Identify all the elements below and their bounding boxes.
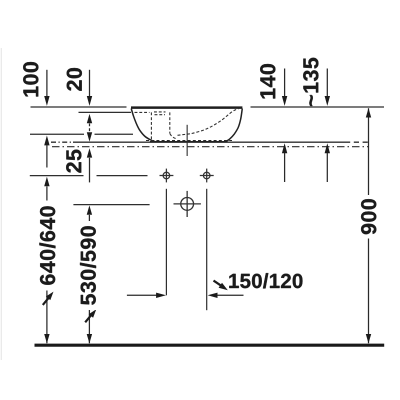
dimension 100 line	[44, 70, 49, 168]
drop line from circle 2	[206, 189, 208, 310]
rim level line left	[31, 106, 127, 108]
inner wall dashed vertical left	[150, 112, 152, 141]
label 150/120	[229, 273, 302, 288]
label 900	[359, 195, 379, 239]
label 530/590	[78, 221, 98, 310]
inner rim dashed line	[135, 111, 150, 113]
faint left border	[0, 48, 2, 360]
label 140	[260, 64, 275, 98]
dimension 530/590 line	[87, 205, 92, 343]
dimension 20 line	[87, 70, 92, 142]
faucet hole circle 1	[160, 169, 174, 183]
washbasin left wall	[131, 109, 156, 142]
washbasin rim	[131, 106, 242, 109]
inner bowl bottom dashed curve	[178, 108, 240, 135]
leader arrow 640/640	[43, 292, 54, 305]
label 100	[23, 62, 38, 96]
faucet hole circle 2	[200, 169, 214, 183]
faucet hole level line	[30, 175, 148, 177]
basin centerline	[186, 125, 188, 156]
inner bowl dashed curve	[170, 134, 176, 139]
label 640/640	[38, 201, 58, 291]
rim level line right	[251, 106, 385, 108]
label 25	[66, 150, 81, 173]
dimension 25 arrows	[87, 148, 92, 182]
dimension 900 line	[366, 108, 371, 343]
drop line from circle 1	[165, 189, 167, 295]
washbasin bottom	[150, 141, 227, 143]
overflow dashed vertical	[169, 112, 171, 133]
washbasin right wall	[225, 109, 242, 142]
drain circle	[174, 191, 201, 217]
drain level line	[73, 204, 149, 206]
floor line	[35, 344, 385, 347]
label 20	[67, 68, 82, 91]
counter bottom dashed line	[52, 146, 369, 148]
dimension 140 line	[282, 69, 287, 183]
dimension 150/120 arrows	[127, 293, 244, 298]
counter top line	[51, 141, 369, 143]
label ~135	[303, 58, 318, 106]
overflow dashes	[154, 112, 166, 115]
inner rim level line	[79, 111, 132, 113]
dimension ~135 line	[325, 69, 330, 183]
sump level line	[30, 133, 133, 135]
dimension 640/640 line	[44, 177, 49, 344]
washbasin bottom hidden dashes	[146, 140, 232, 142]
leader arrow 150/120	[214, 281, 228, 291]
leader arrow 530/590	[85, 309, 96, 322]
